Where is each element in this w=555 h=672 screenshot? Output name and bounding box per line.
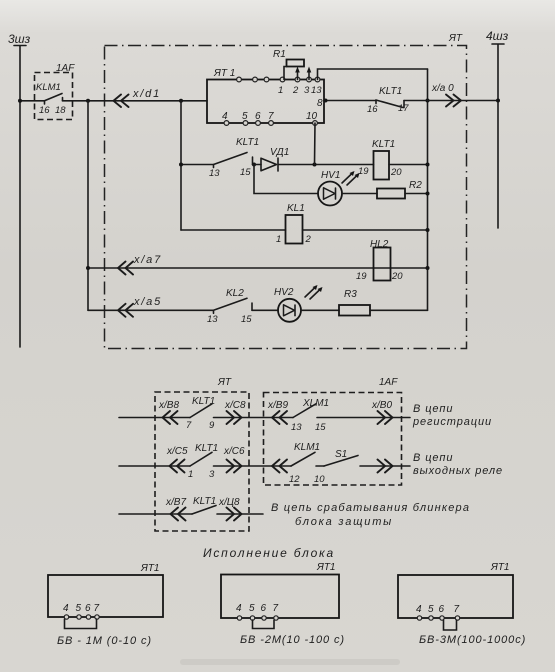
arrow x/B0 (right chevrons) — [378, 411, 393, 424]
arrow x/B9 (left chevrons) — [272, 411, 287, 424]
svg-text:15: 15 — [241, 314, 252, 325]
junction on 4шз bus — [496, 99, 500, 103]
wire row2 mid — [214, 465, 292, 467]
svg-text:3шз: 3шз — [8, 32, 31, 46]
svg-text:1AF: 1AF — [56, 63, 75, 74]
junction rail x/a0 — [426, 99, 430, 103]
junction pin10 node — [313, 163, 317, 167]
svg-text:R2: R2 — [409, 180, 422, 191]
svg-text:ЯТ 1: ЯТ 1 — [213, 68, 235, 79]
block 1AF dashed box — [35, 73, 73, 120]
mid rail x=88 — [87, 101, 89, 310]
svg-text:В цепи: В цепи — [413, 452, 453, 464]
svg-text:10: 10 — [314, 474, 325, 485]
contact KLT1 row3 — [192, 506, 216, 515]
svg-text:13: 13 — [209, 168, 220, 179]
wire R3 to rail — [370, 309, 428, 311]
svg-text:3: 3 — [304, 85, 310, 96]
wire x/d1 — [63, 100, 208, 102]
wire x/a0 — [428, 100, 499, 102]
arrow x/C8 (right chevrons) — [227, 411, 242, 424]
contact KLM1 — [45, 94, 63, 105]
wire HV1 branch — [254, 165, 318, 194]
wire row3 mid — [217, 513, 263, 515]
block variant 2 box ЯТ1 — [221, 575, 339, 619]
arrow x/C6 (right chevrons) — [227, 460, 242, 473]
svg-text:KLT1: KLT1 — [193, 496, 216, 507]
left inner rail — [180, 101, 182, 230]
junction x/a7 right — [426, 266, 430, 270]
svg-text:x/Ц8: x/Ц8 — [218, 497, 240, 508]
svg-text:18: 18 — [55, 105, 66, 116]
svg-text:KLT1: KLT1 — [195, 443, 218, 454]
svg-text:9: 9 — [209, 420, 215, 431]
svg-text:8: 8 — [317, 98, 323, 109]
svg-text:R3: R3 — [344, 289, 357, 300]
arrow x/d1 (left chevrons) — [114, 95, 129, 108]
R1 left lead — [284, 67, 287, 80]
relay coil KL1 — [286, 215, 303, 244]
relay coil KLT1 — [374, 151, 390, 180]
svg-text:3: 3 — [209, 469, 215, 480]
wire HV1 to R2 — [342, 193, 377, 195]
wire KL2 to HV2 — [252, 309, 278, 311]
arrow x/C5 (left chevrons) — [170, 460, 185, 473]
svg-text:S1: S1 — [335, 449, 347, 460]
wire row2 left — [119, 465, 190, 467]
svg-text:1: 1 — [278, 85, 283, 96]
svg-text:БВ-3М(100-1000c): БВ-3М(100-1000c) — [419, 634, 526, 646]
svg-text:12: 12 — [289, 474, 300, 485]
wire row1 right — [317, 417, 410, 419]
wire row1 mid — [214, 417, 294, 419]
wire KL1 row left — [181, 229, 286, 231]
jumper 6-7 — [444, 620, 457, 630]
svg-text:20: 20 — [391, 271, 403, 282]
junction node x/d1 at x=88 — [86, 99, 90, 103]
svg-text:KLT1: KLT1 — [192, 396, 215, 407]
svg-text:HV2: HV2 — [274, 287, 294, 298]
svg-text:13: 13 — [311, 85, 322, 96]
svg-text:4: 4 — [222, 111, 228, 122]
svg-text:13: 13 — [291, 422, 302, 433]
wire row2 right — [360, 465, 410, 467]
arrow x/a0 (right chevrons) — [446, 95, 461, 107]
arrow row2 out (right chevrons) — [378, 460, 393, 473]
svg-text:x/B8: x/B8 — [158, 400, 179, 411]
LED HV1 — [318, 182, 342, 206]
arrow x/U8 (right chevrons) — [227, 508, 242, 521]
svg-text:16: 16 — [39, 105, 50, 116]
contact KLT1 16-17 — [376, 100, 404, 108]
svg-text:KLT1: KLT1 — [372, 139, 395, 150]
svg-text:Исполнение блока: Исполнение блока — [203, 546, 335, 560]
wire HV2 to R3 — [301, 309, 339, 311]
svg-text:15: 15 — [315, 422, 326, 433]
svg-text:2: 2 — [292, 85, 299, 96]
diode VD1 — [253, 164, 262, 166]
svg-text:KLT1: KLT1 — [379, 86, 402, 97]
svg-text:x/a5: x/a5 — [133, 296, 162, 308]
pin circles top of AT1 — [237, 77, 242, 82]
junction pin8 — [324, 99, 328, 103]
junction node x/d1 at x=181 — [179, 99, 183, 103]
pin circles bottom of AT1 — [224, 121, 229, 126]
R1 wiper arrow pin2 — [297, 70, 299, 80]
LED HV2 — [278, 299, 301, 322]
svg-text:x/B9: x/B9 — [267, 400, 288, 411]
arrow x/B7 (left chevrons) — [171, 508, 186, 521]
svg-text:KLM1: KLM1 — [36, 82, 61, 93]
block AT1 (ЯТ1) — [207, 80, 324, 124]
svg-text:x/d1: x/d1 — [132, 88, 161, 100]
svg-text:ЯТ1: ЯТ1 — [316, 562, 336, 573]
contact KL2 — [214, 298, 253, 313]
wire 3шз to KLM1 — [20, 100, 45, 102]
jumper 4-7 — [65, 619, 97, 629]
wire row1 left — [119, 417, 190, 419]
wire row3 left — [119, 513, 192, 515]
bus 4шз — [492, 44, 504, 228]
svg-text:В цепи: В цепи — [413, 403, 453, 415]
svg-text:ЯТ1: ЯТ1 — [140, 563, 160, 574]
svg-text:1: 1 — [276, 234, 281, 245]
arrow x/a7 (left chevrons) — [118, 262, 133, 275]
LED HV1 emission arrows — [342, 173, 358, 186]
svg-text:7: 7 — [273, 603, 279, 614]
junction rail KL1 — [426, 228, 430, 232]
contact KLM1 12-10 — [291, 452, 315, 466]
svg-text:В цепь срабатывания блинкера: В цепь срабатывания блинкера — [271, 502, 470, 514]
svg-text:1: 1 — [188, 469, 193, 480]
svg-text:x/B7: x/B7 — [165, 497, 186, 508]
svg-text:5: 5 — [76, 603, 82, 614]
contact XLM1 13-15 — [293, 404, 316, 418]
svg-text:ЯТ1: ЯТ1 — [490, 562, 510, 573]
wire pin13 to right rail — [318, 69, 428, 80]
wire x/a5 left — [88, 309, 214, 311]
relay coil HL2 — [374, 248, 391, 281]
junction at left rail — [179, 163, 183, 167]
svg-text:БВ - 1М (0-10 c): БВ - 1М (0-10 c) — [57, 635, 152, 647]
lower block 1AF dashed box — [264, 393, 402, 486]
svg-text:17: 17 — [398, 103, 409, 114]
wire to contact KLT1 13-15 — [181, 164, 214, 166]
scan smudge bottom — [180, 659, 400, 665]
svg-text:выходных реле: выходных реле — [413, 465, 503, 477]
svg-text:регистрации: регистрации — [412, 416, 492, 428]
svg-text:4: 4 — [63, 603, 69, 614]
bus 3шз — [14, 46, 26, 348]
svg-text:7: 7 — [268, 111, 274, 122]
svg-text:15: 15 — [240, 167, 251, 178]
svg-text:ЯТ: ЯТ — [217, 377, 232, 388]
svg-text:6: 6 — [439, 604, 445, 615]
svg-text:20: 20 — [390, 167, 402, 178]
svg-text:6: 6 — [255, 111, 261, 122]
svg-text:1AF: 1AF — [379, 377, 398, 388]
svg-text:R1: R1 — [273, 49, 286, 60]
arrow x/a5 (left chevrons) — [118, 304, 133, 317]
junction x/a7 left — [86, 266, 90, 270]
block boundary ЯТ (dash-dot) — [105, 46, 467, 349]
svg-text:БВ -2М(10 -100 c): БВ -2М(10 -100 c) — [240, 634, 345, 646]
svg-text:4: 4 — [416, 604, 422, 615]
wire pin8 — [324, 100, 376, 102]
LED HV2 emission arrows — [305, 287, 321, 300]
jumper 5-7 — [253, 620, 275, 629]
svg-text:VД1: VД1 — [270, 147, 289, 158]
wire pin10 down — [314, 123, 317, 165]
junction rail KLT1 — [426, 163, 430, 167]
resistor R3 — [339, 305, 370, 316]
contact KLT1 7-9 — [190, 404, 212, 418]
svg-text:KL1: KL1 — [287, 203, 305, 214]
R1 wiper arrow pin3 — [308, 70, 310, 80]
svg-text:4: 4 — [236, 603, 242, 614]
arrow row2 (left chevrons) — [272, 460, 287, 473]
svg-text:5: 5 — [249, 603, 255, 614]
svg-text:KL2: KL2 — [226, 288, 244, 299]
contact KLT1 1-3 — [190, 452, 212, 466]
svg-text:7: 7 — [94, 603, 100, 614]
potentiometer R1 — [287, 60, 305, 67]
svg-text:x/a7: x/a7 — [133, 254, 162, 266]
svg-text:x/C8: x/C8 — [224, 400, 246, 411]
contact S1 — [324, 456, 358, 467]
svg-text:7: 7 — [454, 604, 460, 615]
svg-text:6: 6 — [261, 603, 267, 614]
block variant 1 box ЯТ1 — [48, 575, 163, 617]
svg-text:13: 13 — [207, 314, 218, 325]
svg-text:5: 5 — [428, 604, 434, 615]
svg-text:19: 19 — [358, 166, 369, 177]
svg-text:19: 19 — [356, 271, 367, 282]
svg-text:x/C6: x/C6 — [223, 446, 245, 457]
svg-text:ЯТ: ЯТ — [448, 33, 463, 44]
arrow x/B8 (left chevrons) — [163, 411, 178, 424]
wire row2 S1 — [316, 465, 324, 467]
svg-text:x/C5: x/C5 — [166, 446, 188, 457]
svg-text:5: 5 — [242, 111, 248, 122]
junction VD1 node — [252, 163, 256, 167]
svg-text:KLM1: KLM1 — [294, 442, 320, 453]
svg-text:блока защиты: блока защиты — [295, 516, 393, 528]
svg-text:7: 7 — [186, 420, 192, 431]
svg-text:16: 16 — [367, 104, 378, 115]
svg-text:x/B0: x/B0 — [371, 400, 392, 411]
lower block ЯТ dashed box — [155, 392, 249, 531]
junction rail R2 — [426, 192, 430, 196]
resistor R2 — [377, 189, 405, 199]
block variant 3 box ЯТ1 — [398, 575, 513, 618]
svg-text:KLT1: KLT1 — [236, 137, 259, 148]
wire x/a7 — [88, 267, 428, 269]
wire coil to rail — [389, 164, 428, 166]
svg-text:x/a 0: x/a 0 — [431, 83, 454, 94]
wire contact to rail — [404, 100, 428, 102]
contact KLT1 13-15 — [214, 153, 253, 168]
wire R2 to rail — [405, 193, 428, 195]
svg-text:2: 2 — [305, 234, 312, 245]
svg-text:4шз: 4шз — [486, 29, 509, 43]
svg-text:6: 6 — [85, 603, 91, 614]
junction on 3шз bus — [18, 99, 22, 103]
svg-text:10: 10 — [306, 111, 318, 122]
right rail — [427, 69, 429, 310]
svg-text:HV1: HV1 — [321, 170, 340, 181]
wire KL1 row right — [303, 229, 428, 231]
